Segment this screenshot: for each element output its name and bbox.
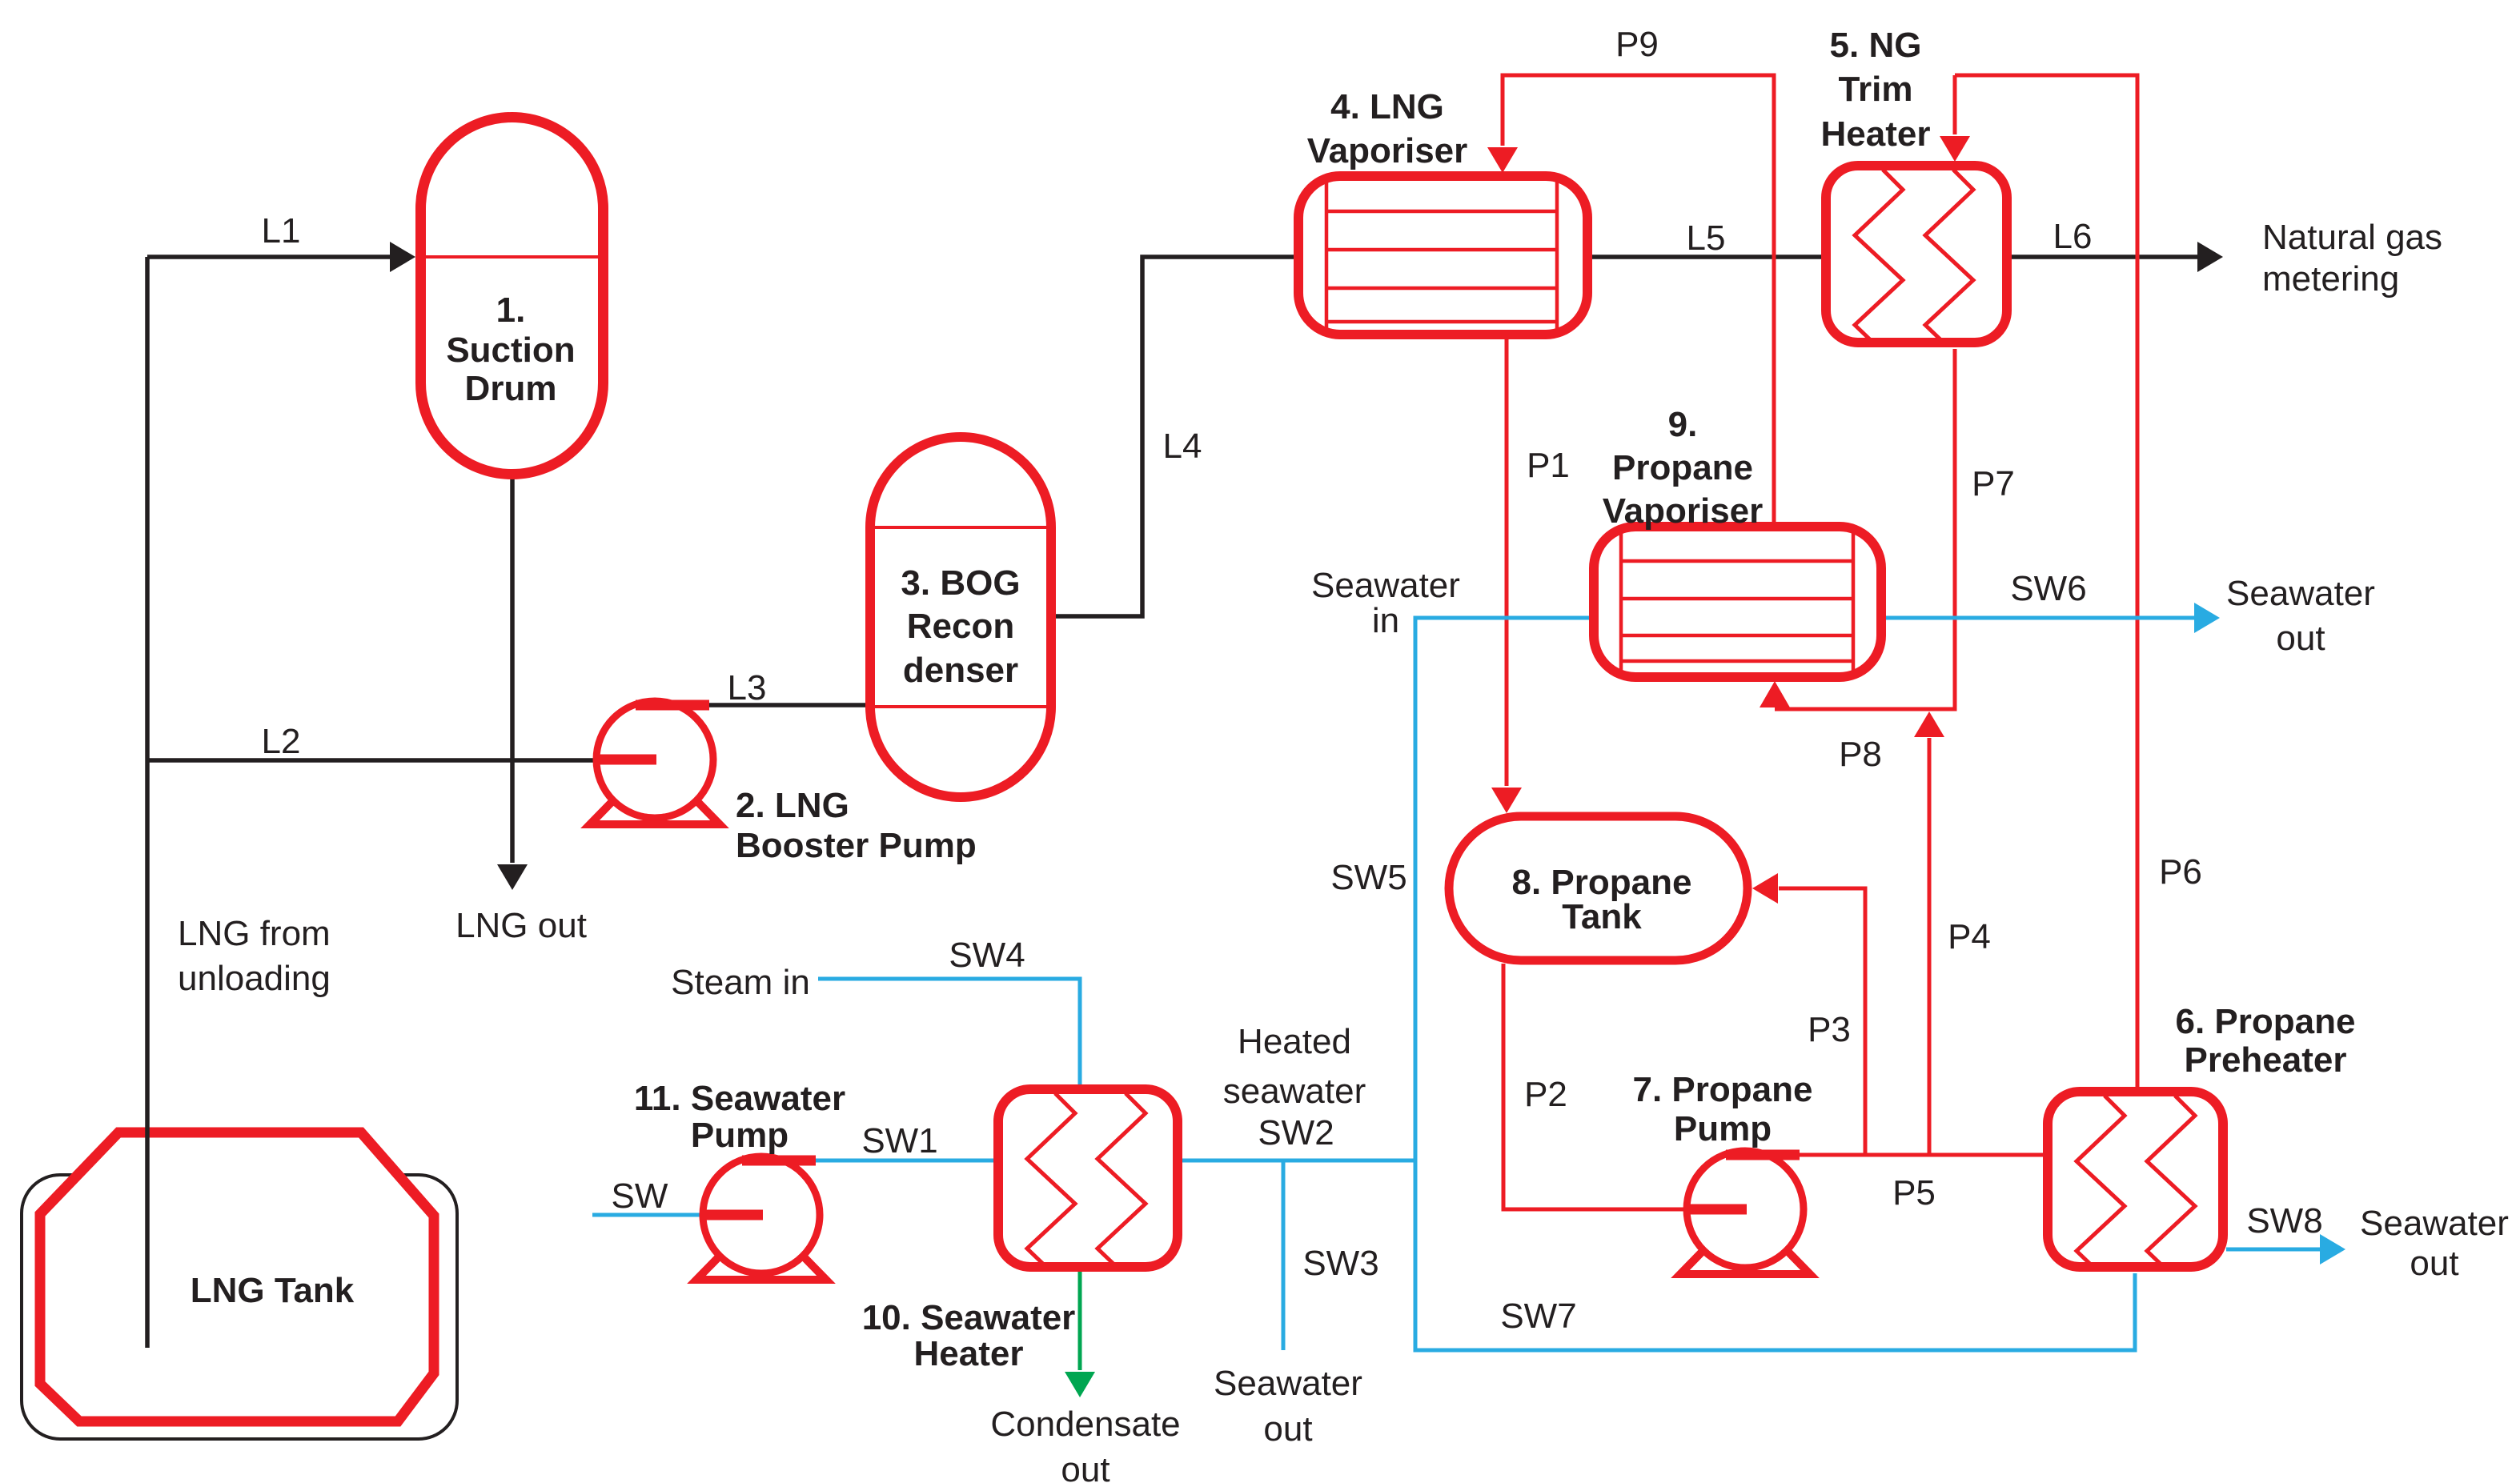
label SW8 <box>2246 1201 2322 1241</box>
svg-text:Seawater: Seawater <box>2360 1204 2509 1243</box>
label P6 <box>2159 852 2202 892</box>
label SW <box>612 1176 668 1216</box>
svg-text:SW3: SW3 <box>1302 1244 1378 1283</box>
exchanger 10 Seawater Heater <box>998 1089 1178 1267</box>
svg-text:P7: P7 <box>1972 464 2015 503</box>
svg-text:Seawater: Seawater <box>1311 566 1460 605</box>
svg-text:11. Seawater: 11. Seawater <box>634 1079 845 1118</box>
wire P7-P8 (trim heater bottom to propane vaporiser bottom) <box>1760 349 1955 709</box>
label P2 <box>1524 1075 1567 1114</box>
wire LNG out (suction drum bottom outlet) <box>497 478 528 890</box>
svg-text:1.: 1. <box>496 291 526 330</box>
label 10. Seawater Heater <box>862 1298 1076 1373</box>
label SW5 <box>1330 858 1406 897</box>
tank 8 Propane Tank <box>1449 816 1748 960</box>
svg-text:SW: SW <box>612 1176 668 1216</box>
svg-text:Heater: Heater <box>1821 114 1931 154</box>
svg-text:Condensate: Condensate <box>990 1405 1180 1444</box>
wire P2 (propane tank bottom to propane pump suction) <box>1503 964 1687 1209</box>
svg-text:out: out <box>1061 1450 1110 1483</box>
svg-text:3. BOG: 3. BOG <box>901 563 1020 603</box>
label 2. LNG Booster Pump <box>736 786 977 865</box>
svg-text:Steam in: Steam in <box>671 963 810 1002</box>
label Heated seawater <box>1223 1022 1366 1111</box>
svg-text:Propane: Propane <box>1612 448 1753 487</box>
wire P1 (LNG vaporiser bottom to propane tank) <box>1491 338 1522 813</box>
svg-text:SW7: SW7 <box>1500 1297 1576 1336</box>
label Seawater out (SW8) <box>2360 1204 2509 1283</box>
wire P3 (propane pump discharge up into propane tank) <box>1752 873 1865 1155</box>
label SW3 <box>1302 1244 1378 1283</box>
svg-text:7. Propane: 7. Propane <box>1633 1070 1813 1109</box>
wire SW3 (branch down, seawater out) <box>1282 1160 1286 1350</box>
label 5. NG Trim Heater <box>1821 26 1931 154</box>
vessel 3 BOG Recondenser <box>870 437 1051 797</box>
svg-text:denser: denser <box>903 651 1018 690</box>
label 8. Propane Tank <box>1512 863 1692 936</box>
svg-text:L5: L5 <box>1687 218 1726 258</box>
svg-text:Seawater: Seawater <box>2226 574 2375 613</box>
svg-text:SW5: SW5 <box>1330 858 1406 897</box>
label P9 <box>1615 25 1659 64</box>
label P4 <box>1948 917 1991 956</box>
label Steam in <box>671 963 810 1002</box>
svg-text:SW8: SW8 <box>2246 1201 2322 1241</box>
svg-text:6. Propane: 6. Propane <box>2176 1002 2356 1041</box>
svg-text:SW2: SW2 <box>1258 1113 1334 1152</box>
svg-text:2. LNG: 2. LNG <box>736 786 849 825</box>
label L3 <box>728 668 767 707</box>
label 4. LNG Vaporiser <box>1307 87 1468 170</box>
label 9. Propane Vaporiser <box>1603 405 1764 531</box>
wire L2 (to LNG booster pump suction) <box>147 758 596 763</box>
svg-text:metering: metering <box>2262 259 2399 299</box>
svg-text:Tank: Tank <box>1562 897 1642 936</box>
svg-text:L4: L4 <box>1163 427 1202 466</box>
wire L4 (BOG recondenser to LNG vaporiser) <box>1054 257 1295 616</box>
svg-text:P1: P1 <box>1527 446 1570 485</box>
label Seawater out (SW3) <box>1214 1364 1362 1449</box>
svg-text:P4: P4 <box>1948 917 1991 956</box>
svg-text:LNG out: LNG out <box>455 906 587 945</box>
label P8 <box>1839 735 1882 774</box>
exchanger 4 LNG Vaporiser <box>1298 176 1587 335</box>
svg-text:Seawater: Seawater <box>1214 1364 1362 1403</box>
svg-text:Preheater: Preheater <box>2184 1040 2346 1080</box>
pump 2 LNG Booster Pump <box>590 701 720 824</box>
svg-text:L3: L3 <box>728 668 767 707</box>
label LNG from unloading <box>178 914 331 998</box>
label LNG out <box>455 906 587 945</box>
svg-text:out: out <box>2276 619 2325 658</box>
wire SW6 (propane vaporiser to seawater out) <box>1884 603 2220 633</box>
label P7 <box>1972 464 2015 503</box>
exchanger 6 Propane Preheater <box>2048 1092 2223 1269</box>
label L1 <box>262 211 301 251</box>
pump 7 Propane Pump <box>1680 1151 1810 1274</box>
svg-text:Vaporiser: Vaporiser <box>1603 491 1764 531</box>
wire P4 (propane pump discharge up to P8 junction) <box>1914 711 1944 1155</box>
svg-text:SW4: SW4 <box>949 936 1025 975</box>
svg-text:8. Propane: 8. Propane <box>1512 863 1692 902</box>
svg-text:Suction: Suction <box>446 331 575 370</box>
wire P6 (top header down to propane preheater) <box>1955 75 2137 1088</box>
wire P9 (propane vaporiser top to LNG vaporiser top) <box>1487 75 1774 523</box>
svg-text:P3: P3 <box>1808 1010 1851 1049</box>
wire SW4 (steam in to seawater heater top) <box>818 979 1080 1086</box>
svg-text:unloading: unloading <box>178 959 331 998</box>
wire L5 (LNG vaporiser to NG trim heater) <box>1591 255 1823 259</box>
LNG tank containment (black rounded rectangle) <box>22 1175 457 1439</box>
svg-text:Pump: Pump <box>691 1116 789 1155</box>
wire SW (seawater to pump 11 suction) <box>592 1213 704 1217</box>
wire SW1 (pump 11 to seawater heater) <box>816 1159 995 1163</box>
wire SW2 (seawater heater to junction) <box>1181 1159 1415 1163</box>
wire SW8 (propane preheater to seawater out) <box>2226 1234 2345 1265</box>
svg-text:L6: L6 <box>2053 217 2093 256</box>
label SW6 <box>2010 569 2086 608</box>
svg-text:P5: P5 <box>1892 1173 1936 1212</box>
wire condensate out (seawater heater bottom) <box>1065 1272 1095 1397</box>
svg-text:SW6: SW6 <box>2010 569 2086 608</box>
wire L6 (NG trim heater to natural gas metering) <box>2010 242 2223 272</box>
svg-text:Booster Pump: Booster Pump <box>736 826 977 865</box>
label 3. BOG Recondenser <box>901 563 1020 690</box>
svg-text:5. NG: 5. NG <box>1830 26 1922 65</box>
label L2 <box>262 722 301 761</box>
svg-text:L2: L2 <box>262 722 301 761</box>
label SW4 <box>949 936 1025 975</box>
svg-text:LNG Tank: LNG Tank <box>191 1271 355 1310</box>
label Condensate out <box>990 1405 1180 1483</box>
svg-text:9.: 9. <box>1668 405 1698 444</box>
label SW2 <box>1258 1113 1334 1152</box>
exchanger 5 NG Trim Heater <box>1826 166 2007 343</box>
wire L1 (LNG tank to suction drum) <box>147 242 415 272</box>
label L6 <box>2053 217 2093 256</box>
label SW1 <box>861 1121 937 1160</box>
svg-text:seawater: seawater <box>1223 1072 1366 1111</box>
svg-text:Drum: Drum <box>465 369 557 408</box>
svg-text:Trim: Trim <box>1839 70 1913 109</box>
svg-text:Vaporiser: Vaporiser <box>1307 131 1468 170</box>
label Seawater out (SW6) <box>2226 574 2375 658</box>
wire SW5 (junction up to seawater-in header) <box>1415 618 1591 1160</box>
wire P5 (propane pump discharge to propane preheater) <box>1798 1153 2044 1157</box>
label LNG Tank <box>191 1271 355 1310</box>
vessel 1 Suction Drum <box>421 118 604 475</box>
label Natural gas metering <box>2262 218 2442 299</box>
label 11. Seawater Pump <box>634 1079 845 1155</box>
pump 11 Seawater Pump <box>696 1156 826 1280</box>
label P5 <box>1892 1173 1936 1212</box>
wire LNG-from-unloading (vertical into LNG tank) <box>145 257 150 1348</box>
label P3 <box>1808 1010 1851 1049</box>
svg-text:Natural gas: Natural gas <box>2262 218 2442 257</box>
svg-text:Pump: Pump <box>1674 1109 1772 1148</box>
label SW7 <box>1500 1297 1576 1336</box>
label 6. Propane Preheater <box>2176 1002 2356 1080</box>
svg-text:L1: L1 <box>262 211 301 251</box>
svg-text:out: out <box>2410 1244 2458 1283</box>
wire into trim heater top (from P6 header) <box>1940 75 1970 162</box>
label 1. Suction Drum <box>446 291 575 408</box>
label P1 <box>1527 446 1570 485</box>
label 7. Propane Pump <box>1633 1070 1813 1148</box>
svg-text:Heater: Heater <box>914 1334 1024 1373</box>
svg-text:P6: P6 <box>2159 852 2202 892</box>
wire SW7 (junction to propane preheater bottom) <box>1415 1160 2135 1350</box>
label L4 <box>1163 427 1202 466</box>
svg-text:Heated: Heated <box>1238 1022 1351 1061</box>
svg-text:P2: P2 <box>1524 1075 1567 1114</box>
label Seawater in <box>1311 566 1460 640</box>
tank LNG Tank (red octagon) <box>40 1132 434 1421</box>
wire L3 (pump 2 discharge to BOG recondenser) <box>709 703 867 707</box>
svg-text:SW1: SW1 <box>861 1121 937 1160</box>
svg-text:Recon: Recon <box>907 607 1014 646</box>
svg-text:out: out <box>1263 1409 1312 1449</box>
exchanger 9 Propane Vaporiser <box>1594 527 1881 677</box>
svg-text:P8: P8 <box>1839 735 1882 774</box>
svg-text:P9: P9 <box>1615 25 1659 64</box>
svg-text:4. LNG: 4. LNG <box>1330 87 1444 126</box>
label L5 <box>1687 218 1726 258</box>
svg-text:LNG from: LNG from <box>178 914 331 953</box>
svg-text:10. Seawater: 10. Seawater <box>862 1298 1076 1337</box>
svg-text:in: in <box>1372 601 1399 640</box>
